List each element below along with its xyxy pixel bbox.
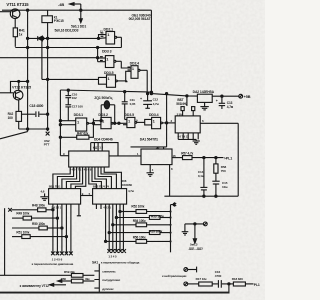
wire DD2.4 output loop down-left	[60, 70, 151, 92]
SA1 ticks	[94, 271, 99, 288]
node (203.9,196.2)	[203, 195, 205, 197]
label link pins	[82, 192, 91, 196]
svg-text:R52 100к: R52 100к	[131, 205, 144, 209]
label R42	[8, 112, 14, 120]
label C11	[130, 98, 136, 106]
wire relay to PTT x47.6	[47, 23, 49, 132]
svg-text:1 2 4 5: 1 2 4 5	[108, 254, 117, 258]
capacitor C17	[65, 98, 71, 121]
IC DD5a	[49, 189, 81, 205]
pin marks DD3.3	[100, 57, 103, 61]
node (97.6,47.5)	[97, 46, 99, 48]
terminal neut bottom	[184, 282, 188, 286]
label C16	[215, 270, 222, 278]
node (27.6,129)	[27, 128, 29, 130]
wire long H y47.5	[15, 47, 121, 49]
svg-text:4 6 7 9 11: 4 6 7 9 11	[178, 134, 189, 138]
wire DA1 top pin stubs	[183, 111, 194, 116]
label PTT	[44, 139, 50, 147]
transistor VT12	[0, 81, 28, 111]
resistor R60	[58, 279, 95, 283]
svg-text:+: +	[216, 99, 218, 103]
terminal +5B	[239, 94, 243, 98]
terminal crosses left	[51, 252, 73, 256]
capacitor C12	[143, 94, 152, 109]
ground DD5 pin4	[147, 165, 154, 177]
resistor R50	[12, 226, 62, 230]
label power dest	[189, 243, 203, 251]
capacitor C16	[218, 280, 233, 288]
label DD6	[122, 179, 133, 187]
wire R42 bottom	[18, 121, 20, 129]
pin pads DA1 top	[181, 107, 184, 111]
svg-text:дуплекс: дуплекс	[102, 287, 114, 291]
svg-text:DD2.1: DD2.1	[104, 27, 114, 31]
wire fanout 10	[98, 171, 111, 189]
capacitor C10	[65, 90, 71, 98]
wire DD3.3 out to DD2.4	[121, 61, 131, 68]
ground DA1	[193, 139, 200, 144]
wire R41 bottom	[14, 37, 16, 47]
wire V x97.6	[97, 48, 99, 62]
svg-text:полудуплекс: полудуплекс	[102, 278, 120, 282]
wire DD5 pin to bottom rail	[169, 165, 171, 197]
wire fanout 6	[75, 171, 85, 189]
svg-text:DD3.1: DD3.1	[74, 113, 84, 117]
wire H y57.7	[0, 57, 98, 59]
svg-text:DD3.5: DD3.5	[104, 71, 114, 75]
svg-text:С18 4800: С18 4800	[29, 104, 43, 108]
svg-text:1к: 1к	[19, 32, 23, 36]
resistor R52	[120, 210, 171, 214]
resistor R42	[16, 111, 22, 121]
ground DA2	[200, 102, 208, 110]
wire fanout 9	[95, 171, 107, 189]
wire inter-gate V x93.4	[92, 119, 94, 138]
extra pin stub	[96, 204, 101, 209]
node (228.9,283.9)	[228, 283, 230, 285]
svg-text:DD4 CD4046: DD4 CD4046	[94, 138, 113, 142]
IC DA1	[175, 116, 200, 133]
node (27.6,47.5)	[27, 46, 29, 48]
wire fanout 2	[57, 171, 73, 189]
pin marks DD2.1	[101, 33, 104, 36]
label C15	[222, 181, 228, 189]
svg-text:С17 100: С17 100	[72, 105, 83, 109]
terminal neut top	[184, 267, 197, 273]
wire diagonal to left edge	[0, 132, 28, 139]
svg-text:VT11 КТ315: VT11 КТ315	[6, 2, 29, 7]
node (47.6,129)	[47, 128, 49, 130]
gate DD3.3	[98, 56, 122, 68]
label top right chip types	[129, 13, 152, 21]
wire H y196.2	[164, 195, 238, 197]
node (47.6,114.2)	[47, 113, 49, 115]
svg-text:PL1: PL1	[254, 283, 260, 287]
svg-text:R17 16к: R17 16к	[196, 277, 207, 281]
node diode right	[47, 37, 49, 39]
resistor R56	[106, 240, 171, 244]
label C10	[72, 93, 78, 100]
node (112.8,224.8)	[112, 224, 114, 226]
ground near DD5a	[40, 193, 49, 200]
svg-text:DD3.5: DD3.5	[125, 113, 135, 117]
resistor R51	[12, 235, 66, 239]
pin marks DD2.4	[128, 67, 131, 70]
svg-text:R53 100к: R53 100к	[151, 215, 164, 219]
gate DD3.5b	[123, 117, 145, 127]
gate DD3.5a	[99, 75, 127, 87]
stub with bar near DD5a	[77, 204, 81, 216]
svg-text:39к: 39к	[85, 277, 90, 281]
node (18.7,81.4)	[18, 80, 20, 82]
box border left bottom	[4, 208, 6, 275]
svg-text:DD3.4: DD3.4	[149, 113, 159, 117]
wire PTT feed y79.4	[42, 78, 99, 80]
ground power left	[182, 224, 189, 235]
wire bus x170.5	[170, 205, 172, 253]
svg-text:4700: 4700	[215, 274, 222, 278]
svg-text:DA1 564ТЛ1: DA1 564ТЛ1	[140, 137, 158, 141]
svg-text:R60: R60	[61, 277, 67, 281]
svg-text:к переключателю общища: к переключателю общища	[101, 261, 140, 265]
label DA1	[176, 98, 188, 106]
gate DD2.1	[106, 32, 121, 45]
wire DD5a-DD5b link	[81, 195, 93, 197]
svg-text:к нейтрализации: к нейтрализации	[162, 274, 187, 278]
node (118.9,123.3)	[118, 122, 120, 124]
svg-text:R54 100к: R54 100к	[133, 219, 146, 223]
node (116.4,217.5)	[115, 216, 117, 218]
svg-text:10м: 10м	[222, 185, 228, 189]
resistor R57	[172, 156, 223, 160]
node diode left	[27, 37, 29, 39]
capacitor C13	[219, 96, 225, 109]
wire fanout 7	[89, 171, 97, 189]
svg-text:R49 100к: R49 100к	[16, 212, 29, 216]
node top bus A	[27, 9, 29, 11]
bottom scan line	[0, 292, 230, 294]
wire DA1 top feed x186.9	[186, 96, 188, 106]
svg-text:4,6: 4,6	[41, 190, 45, 194]
terminal cross R48	[8, 208, 12, 212]
node (60.4,120.7)	[59, 120, 61, 122]
IC DD4	[69, 151, 109, 167]
wire supply bus x151.4	[150, 10, 152, 93]
node (166.6,122.9)	[166, 122, 168, 124]
resistor R41	[13, 28, 17, 37]
svg-text:R48 100к: R48 100к	[32, 203, 45, 207]
svg-text:5в0,16 DD2,DD3: 5в0,16 DD2,DD3	[55, 29, 79, 33]
node (101.2,120.7)	[100, 120, 102, 122]
svg-text:4 3 2 1: 4 3 2 1	[103, 206, 111, 210]
resistor R53	[116, 216, 170, 220]
node (109.2,232.6)	[108, 232, 110, 234]
label C12	[153, 98, 160, 106]
svg-text:>PL1: >PL1	[224, 157, 232, 161]
DD4 top pins	[91, 143, 118, 156]
terminal crosses right	[107, 249, 126, 253]
svg-text:DD2.4: DD2.4	[130, 62, 140, 66]
resistor R59	[0, 274, 94, 278]
capacitor C11	[122, 92, 128, 120]
node (47.6,47.5)	[47, 46, 49, 48]
wire fanout DD4 to DD5a	[53, 171, 70, 189]
wire fanout 5	[71, 171, 83, 189]
wire DD4 right pin to DD5	[109, 155, 141, 157]
resistor R54	[113, 223, 171, 227]
resistor R17	[188, 282, 218, 286]
svg-text:5 6: 5 6	[156, 145, 160, 149]
svg-text:2 5%: 2 5%	[177, 112, 183, 116]
svg-text:002,005 561АТ: 002,005 561АТ	[129, 17, 152, 21]
DD5 top pin stubs	[158, 147, 164, 149]
wire vertical bus A x27.6	[27, 10, 29, 131]
node (47.6,79.4)	[47, 78, 49, 80]
wire power H y223.9	[185, 223, 204, 225]
regulator DA2	[197, 94, 212, 102]
node (60.4,124.7)	[59, 124, 61, 126]
gate DD2.4	[131, 66, 147, 79]
svg-text:ZQ1 500кГц: ZQ1 500кГц	[94, 96, 113, 100]
svg-text:1: 1	[132, 67, 134, 71]
wire H y129	[19, 128, 48, 130]
node (66.4,236.6)	[65, 236, 67, 238]
svg-text:R56 100к: R56 100к	[133, 236, 146, 240]
node (80.8,10.2)	[80, 9, 82, 11]
resistor R47	[60, 135, 93, 139]
switch SA1 line	[98, 264, 100, 292]
svg-text:DD3 3: DD3 3	[102, 49, 112, 53]
svg-text:R18 820: R18 820	[232, 277, 243, 281]
svg-text:РЭС15: РЭС15	[54, 19, 64, 23]
wire top rail	[2, 9, 151, 11]
wire fanout 4	[66, 171, 79, 189]
crystal ZQ1	[101, 101, 115, 124]
wire H y146.9	[131, 146, 167, 148]
svg-text:100: 100	[8, 116, 13, 120]
node (124.7,91.7)	[124, 91, 126, 93]
wire DA1 pin6 right	[200, 122, 238, 124]
wire V x238.2	[237, 123, 239, 196]
wire diode row to DD2.1 input	[99, 35, 107, 39]
wire fanout 11	[101, 171, 116, 189]
svg-text:к эквиваленту VT12: к эквиваленту VT12	[20, 284, 50, 288]
node (147.6,93.6)	[147, 93, 149, 95]
node (97.6,57.7)	[97, 57, 99, 59]
svg-text:PTT: PTT	[44, 142, 50, 146]
node (52.9,209.8)	[52, 209, 54, 211]
svg-text:R47 62к: R47 62к	[77, 132, 89, 136]
node (215.9,157.6)	[215, 157, 217, 159]
svg-text:+5В: +5В	[244, 95, 251, 99]
node (151.4,92.4)	[150, 91, 152, 93]
DD5b bottom pins	[106, 204, 124, 251]
arrow -4B	[70, 3, 83, 23]
node (194.9,223.9)	[194, 223, 196, 225]
resistor R18	[233, 282, 253, 286]
svg-text:4,7м: 4,7м	[153, 102, 160, 106]
svg-text:VT12 КТ315: VT12 КТ315	[12, 85, 31, 89]
wire DD3.2 inputs	[93, 121, 101, 125]
svg-text:-4В: -4В	[58, 2, 64, 7]
wire DD4 left pin 9	[60, 155, 68, 157]
svg-text:R51 100к: R51 100к	[16, 231, 29, 235]
node (166.6,93.6)	[166, 93, 168, 95]
svg-text:4,7м: 4,7м	[128, 189, 134, 193]
wire diode branch down x41.9	[41, 40, 43, 79]
wire DD2.1 output loop	[120, 37, 122, 47]
svg-text:4,7м: 4,7м	[227, 105, 234, 109]
connector XS2 PTT	[46, 132, 50, 136]
DD4 bottom pins	[70, 167, 104, 171]
capacitor C18	[22, 111, 48, 117]
node (186.9,95.9)	[186, 95, 188, 97]
svg-text:R55 100к: R55 100к	[149, 230, 162, 234]
node (57.4,218.1)	[56, 217, 58, 219]
arrow power down	[193, 224, 196, 243]
resistor R55	[109, 231, 170, 235]
svg-text:DD3.2: DD3.2	[98, 113, 108, 117]
svg-text:SA1: SA1	[92, 261, 98, 265]
svg-text:102: 102	[72, 96, 77, 100]
wire junction down	[228, 284, 230, 292]
node (151.4,93.6)	[150, 93, 152, 95]
DD5a bottom pins	[53, 204, 71, 253]
svg-text:R57 4,7к: R57 4,7к	[181, 152, 193, 156]
DA1 bottom pins	[178, 133, 198, 140]
resistor R48	[12, 208, 53, 212]
resistor R58	[214, 158, 218, 181]
transistor VT11	[0, 9, 20, 28]
svg-text:CD4060: CD4060	[122, 183, 133, 187]
label K1	[54, 16, 64, 24]
node (203.9,157.6)	[203, 157, 205, 159]
gate DD3.1	[60, 118, 93, 131]
label R58	[221, 165, 227, 173]
svg-text:R50 100к: R50 100к	[32, 222, 45, 226]
node (114.7,123.3)	[114, 122, 116, 124]
node (98.5,38.4)	[97, 37, 99, 39]
wire osc rail x60.4	[59, 90, 61, 156]
node (120,211.5)	[119, 210, 121, 212]
capacitor C15	[212, 181, 219, 196]
wire fanout 3	[62, 171, 77, 189]
svg-text:ДД1...ДД3: ДД1...ДД3	[189, 246, 203, 250]
node (105.6,241.4)	[105, 240, 107, 242]
capacitor C14	[200, 158, 207, 197]
svg-text:симплекс: симплекс	[102, 270, 116, 274]
wire supply H y93.6	[151, 94, 197, 97]
wire fanout 8	[92, 171, 101, 189]
label C13	[227, 101, 234, 109]
wire fanout 12	[104, 171, 121, 189]
svg-text:R59 39к: R59 39к	[64, 270, 75, 274]
terminal top of bus	[171, 202, 177, 206]
svg-text:5б1ИН2: 5б1ИН2	[176, 102, 188, 106]
node (61.9,228)	[61, 227, 63, 229]
node (93.4,123.3)	[92, 122, 94, 124]
gate DD3.2	[101, 117, 127, 128]
node (215.9,196.2)	[215, 195, 217, 197]
power terminal circle	[203, 222, 207, 226]
node (60.4,137.3)	[59, 136, 61, 138]
node (68.3,90.2)	[67, 89, 69, 91]
wire DD3.5a out up to DD2.4	[126, 71, 131, 81]
IC DD5 box	[141, 149, 172, 165]
diode VD1	[28, 36, 99, 41]
svg-text:0,1м: 0,1м	[198, 174, 205, 178]
svg-text:750: 750	[221, 169, 226, 173]
arrow to VT12 equivalent	[50, 283, 67, 286]
svg-text:DA2 142ЕН5А: DA2 142ЕН5А	[193, 90, 215, 94]
nodes on bus x170.5	[169, 210, 171, 242]
gate DD3.4	[145, 117, 176, 128]
svg-text:+: +	[140, 97, 142, 101]
resistor R49	[12, 216, 57, 220]
svg-text:0,05: 0,05	[130, 102, 136, 106]
node (27.6,81.4)	[27, 80, 29, 82]
relay K1	[42, 10, 53, 22]
wire bus x166.6	[166, 94, 168, 147]
IC DD5b	[93, 189, 127, 205]
svg-text:к переключателю диапазона: к переключателю диапазона	[32, 262, 74, 266]
wire DA2 out	[212, 95, 239, 97]
node (221.9,96.2)	[221, 95, 223, 97]
pin labels 12 13	[100, 29, 103, 33]
label C14	[198, 170, 205, 178]
label R41	[19, 29, 25, 37]
